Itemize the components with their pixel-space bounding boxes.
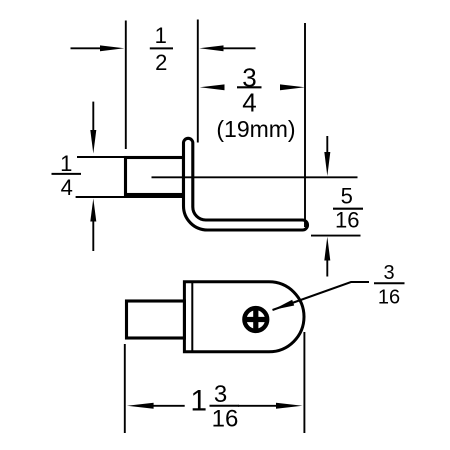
- svg-text:5: 5: [341, 184, 353, 209]
- svg-text:2: 2: [155, 50, 167, 75]
- svg-text:16: 16: [212, 406, 239, 433]
- svg-text:16: 16: [378, 287, 400, 309]
- svg-text:3: 3: [383, 262, 394, 284]
- svg-text:4: 4: [242, 88, 256, 118]
- svg-text:16: 16: [335, 208, 359, 233]
- svg-text:4: 4: [61, 175, 73, 200]
- svg-text:(19mm): (19mm): [216, 116, 295, 142]
- svg-text:1: 1: [155, 23, 167, 48]
- svg-text:3: 3: [214, 381, 227, 408]
- svg-text:1: 1: [190, 385, 207, 418]
- svg-text:1: 1: [60, 151, 72, 176]
